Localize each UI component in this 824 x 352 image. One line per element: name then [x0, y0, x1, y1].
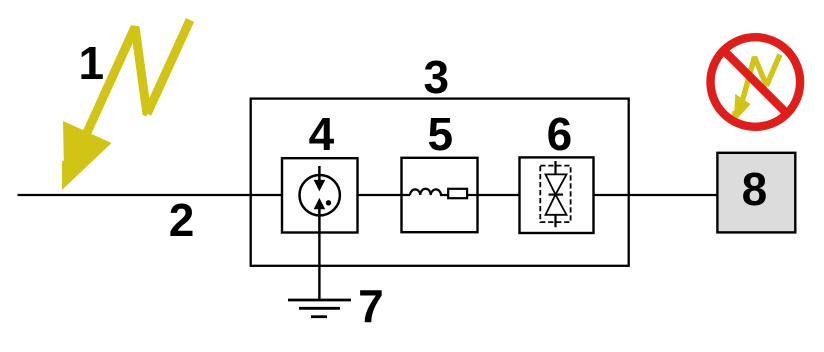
- box 5: [402, 158, 478, 232]
- wire input line: [18, 194, 283, 196]
- ground lead wire: [318, 233, 320, 301]
- wire box5 to box6: [478, 194, 520, 196]
- box 6: [520, 157, 594, 233]
- svg-text:8: 8: [742, 163, 768, 215]
- TVS vertical lead: [554, 161, 556, 227]
- spark gap dot: [326, 200, 331, 205]
- TVS center bar: [549, 194, 564, 196]
- box 4: [282, 158, 358, 232]
- wire box4 to box5: [358, 194, 402, 196]
- gas discharge tube symbol: [300, 166, 340, 233]
- wire resistor to box edge: [467, 194, 477, 196]
- inductor: [402, 189, 449, 195]
- box 3 SPD enclosure: [251, 99, 629, 266]
- svg-text:6: 6: [547, 108, 573, 160]
- svg-text:7: 7: [358, 280, 384, 332]
- box 8 protected equipment: [717, 153, 795, 233]
- TVS bottom diode triangle: [546, 195, 567, 215]
- svg-text:4: 4: [309, 108, 335, 160]
- wire box6 to box8: [594, 194, 718, 196]
- spark gap arrow up: [314, 198, 326, 209]
- TVS top diode triangle: [546, 174, 567, 194]
- svg-text:3: 3: [424, 51, 450, 103]
- TVS dashed rect: [540, 166, 570, 223]
- svg-text:2: 2: [169, 194, 195, 246]
- ground symbol: [288, 300, 351, 317]
- svg-text:5: 5: [428, 108, 454, 160]
- no-surge sign slash: [726, 53, 784, 111]
- spark gap arrow down: [314, 180, 326, 192]
- lightning bolt surge arrow: [62, 18, 194, 190]
- no-surge sign lightning bolt: [732, 53, 783, 124]
- resistor: [448, 189, 467, 198]
- svg-text:1: 1: [79, 37, 105, 89]
- no-surge sign prohibition circle: [711, 37, 801, 127]
